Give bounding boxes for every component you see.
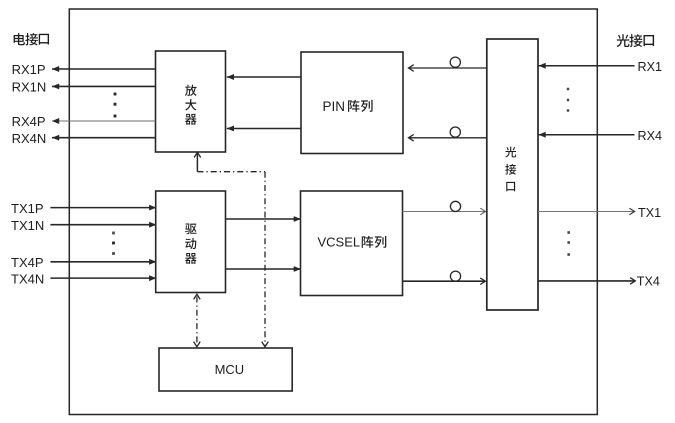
ellipsis RX electrical	[114, 93, 117, 118]
wire PIN array to amplifier ch1	[227, 74, 301, 80]
lens coupler ch4	[450, 127, 460, 137]
svg-text:RX1P: RX1P	[12, 62, 46, 77]
block PIN array PIN阵列	[301, 52, 403, 154]
svg-text:TX1: TX1	[638, 206, 661, 220]
wire TX4N input	[50, 275, 156, 281]
svg-text:RX4: RX4	[638, 129, 663, 143]
pin label TX4P	[11, 255, 44, 270]
pin label TX1	[638, 206, 661, 220]
block driver U2 驱动器	[156, 191, 226, 293]
module frame	[69, 9, 597, 415]
wire TX1P input	[50, 205, 156, 211]
wire RX4 optical input	[539, 132, 635, 138]
svg-text:TX1P: TX1P	[11, 201, 44, 216]
wire RX1P output	[52, 66, 156, 72]
pin label RX4	[638, 129, 663, 143]
lens coupler TX ch1	[450, 201, 460, 211]
lens coupler TX ch4	[450, 271, 460, 281]
wire PIN array to amplifier ch4	[227, 126, 301, 132]
svg-text:RX1: RX1	[638, 60, 663, 74]
wire VCSEL to optical port ch4	[403, 278, 486, 285]
pin label RX4P	[12, 114, 46, 129]
wire TX4 optical output	[538, 278, 635, 285]
svg-text:TX4P: TX4P	[11, 255, 44, 270]
pin label RX1N	[12, 80, 47, 95]
label electrical interface 电接口	[14, 33, 49, 45]
wire TX1 optical output	[538, 208, 635, 215]
ellipsis RX optical	[567, 88, 570, 112]
ellipsis TX electrical	[112, 232, 115, 255]
wire MCU control to amplifier (solid segment with arrow)	[194, 152, 201, 171]
wire driver-MCU bidirectional dash-dot	[194, 294, 201, 347]
svg-text:RX4P: RX4P	[12, 114, 46, 129]
svg-text:TX1N: TX1N	[11, 218, 44, 233]
block optical port 光接口	[487, 39, 538, 310]
svg-text:RX1N: RX1N	[12, 80, 47, 95]
pin label TX1P	[11, 201, 44, 216]
label optical interface 光接口	[617, 34, 655, 47]
svg-text:RX4N: RX4N	[12, 131, 47, 146]
wire driver to VCSEL ch1	[226, 216, 301, 222]
block MCU U3	[159, 348, 292, 391]
wire MCU control horizontal dash-dot	[197, 171, 265, 173]
pin label TX4	[637, 275, 660, 289]
block VCSEL array VCSEL阵列	[301, 191, 403, 296]
wire TX4P input	[50, 259, 156, 265]
block amplifier U1 放大器	[156, 51, 226, 152]
pin label RX1	[638, 60, 663, 74]
wire driver to VCSEL ch4	[226, 266, 301, 272]
wire TX1N input	[50, 222, 156, 228]
wire RX4P output	[52, 118, 156, 124]
wire VCSEL to optical port ch1	[403, 208, 486, 215]
svg-text:TX4N: TX4N	[11, 271, 44, 286]
wire MCU control vertical dash-dot to MCU	[262, 172, 269, 347]
wire optical port to PIN ch1	[409, 65, 487, 72]
svg-text:VCSEL: VCSEL	[318, 235, 361, 250]
pin label TX4N	[11, 271, 44, 286]
wire RX1 optical input	[539, 63, 635, 69]
svg-text:MCU: MCU	[215, 362, 245, 377]
lens coupler ch1	[450, 57, 460, 67]
svg-text:PIN: PIN	[323, 99, 346, 114]
svg-text:TX4: TX4	[637, 275, 660, 289]
wire RX4N output	[52, 135, 156, 141]
pin label RX4N	[12, 131, 47, 146]
pin label RX1P	[12, 62, 46, 77]
wire RX1N output	[52, 84, 156, 90]
ellipsis TX optical	[567, 231, 570, 256]
pin label TX1N	[11, 218, 44, 233]
wire optical port to PIN ch4	[409, 135, 487, 142]
